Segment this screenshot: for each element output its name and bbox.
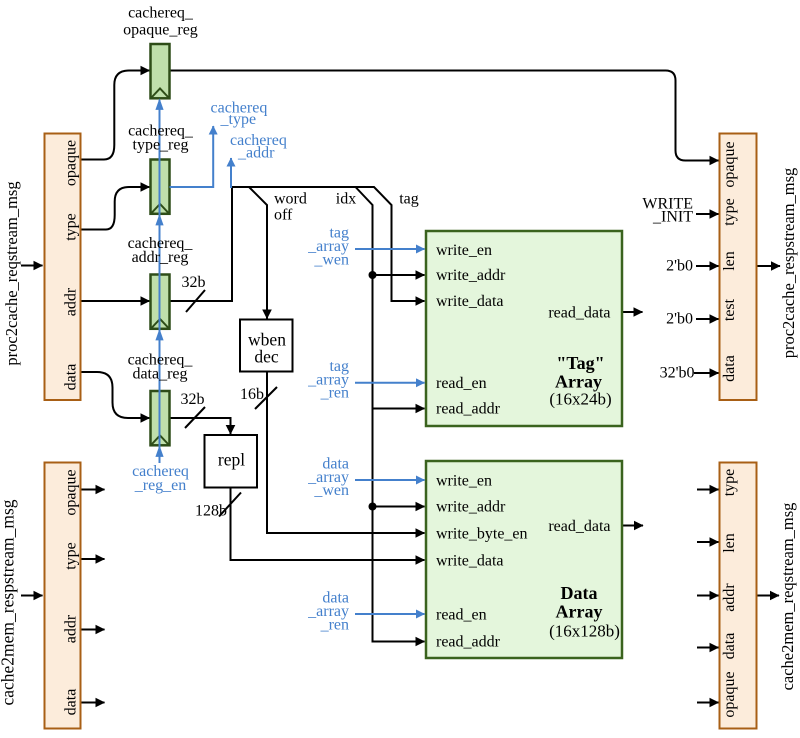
svg-text:_wen: _wen bbox=[313, 252, 349, 269]
svg-text:read_data: read_data bbox=[548, 305, 610, 322]
svg-text:proc2cache_respstream_msg: proc2cache_respstream_msg bbox=[779, 168, 798, 359]
svg-text:(16x24b): (16x24b) bbox=[549, 390, 611, 409]
svg-text:"Tag": "Tag" bbox=[556, 353, 604, 373]
svg-text:_ren: _ren bbox=[320, 617, 349, 634]
svg-text:opaque: opaque bbox=[721, 141, 738, 187]
svg-text:type: type bbox=[63, 213, 80, 241]
svg-text:_ren: _ren bbox=[320, 385, 349, 402]
svg-text:write_addr: write_addr bbox=[436, 499, 506, 516]
svg-text:len: len bbox=[721, 251, 738, 271]
svg-text:32'b0: 32'b0 bbox=[660, 365, 695, 382]
svg-text:16b: 16b bbox=[240, 386, 264, 403]
svg-text:_wen: _wen bbox=[313, 482, 349, 499]
svg-text:addr: addr bbox=[721, 583, 738, 612]
svg-text:addr: addr bbox=[63, 287, 80, 316]
svg-text:idx: idx bbox=[336, 191, 356, 208]
svg-text:data_reg: data_reg bbox=[132, 366, 187, 383]
svg-text:read_data: read_data bbox=[548, 518, 610, 535]
svg-text:_reg_en: _reg_en bbox=[134, 477, 187, 494]
svg-text:2'b0: 2'b0 bbox=[666, 258, 693, 275]
svg-text:write_byte_en: write_byte_en bbox=[436, 526, 528, 543]
svg-text:cache2mem_respstream_msg: cache2mem_respstream_msg bbox=[0, 499, 18, 705]
svg-text:write_data: write_data bbox=[436, 553, 504, 570]
svg-text:opaque: opaque bbox=[63, 140, 80, 186]
svg-text:32b: 32b bbox=[181, 391, 205, 408]
svg-text:read_en: read_en bbox=[436, 375, 487, 392]
svg-text:len: len bbox=[721, 533, 738, 553]
svg-text:write_addr: write_addr bbox=[436, 267, 506, 284]
svg-text:128b: 128b bbox=[195, 503, 227, 520]
svg-text:type_reg: type_reg bbox=[133, 137, 189, 154]
svg-text:cache2mem_reqstream_msg: cache2mem_reqstream_msg bbox=[778, 503, 797, 691]
svg-text:Array: Array bbox=[556, 602, 603, 622]
svg-text:dec: dec bbox=[254, 347, 279, 367]
svg-text:opaque: opaque bbox=[63, 469, 80, 515]
svg-text:addr_reg: addr_reg bbox=[132, 249, 189, 266]
svg-text:data: data bbox=[63, 689, 80, 716]
svg-text:addr: addr bbox=[63, 614, 80, 643]
svg-text:type: type bbox=[63, 542, 80, 570]
svg-text:Data: Data bbox=[561, 583, 598, 603]
svg-text:write_data: write_data bbox=[436, 293, 504, 310]
svg-text:write_en: write_en bbox=[436, 473, 492, 490]
svg-text:opaque_reg: opaque_reg bbox=[123, 22, 198, 39]
svg-text:read_addr: read_addr bbox=[436, 634, 501, 651]
svg-text:data: data bbox=[721, 355, 738, 382]
svg-text:2'b0: 2'b0 bbox=[666, 311, 693, 328]
svg-text:read_en: read_en bbox=[436, 607, 487, 624]
svg-text:write_en: write_en bbox=[436, 242, 492, 259]
svg-text:repl: repl bbox=[218, 450, 245, 470]
svg-text:off: off bbox=[274, 207, 293, 224]
svg-text:read_addr: read_addr bbox=[436, 401, 501, 418]
svg-text:cachereq_: cachereq_ bbox=[128, 5, 194, 22]
svg-text:type: type bbox=[721, 198, 738, 226]
svg-text:type: type bbox=[721, 469, 738, 497]
svg-text:Array: Array bbox=[555, 372, 602, 392]
svg-text:32b: 32b bbox=[182, 274, 206, 291]
svg-text:word: word bbox=[274, 191, 307, 208]
svg-text:_INIT: _INIT bbox=[652, 209, 693, 226]
svg-text:opaque: opaque bbox=[721, 671, 738, 717]
svg-text:(16x128b): (16x128b) bbox=[549, 622, 620, 641]
svg-text:_type: _type bbox=[220, 111, 257, 128]
svg-text:data: data bbox=[721, 633, 738, 660]
svg-text:proc2cache_reqstream_msg: proc2cache_reqstream_msg bbox=[2, 181, 21, 365]
svg-text:_addr: _addr bbox=[237, 145, 275, 162]
svg-text:tag: tag bbox=[399, 191, 419, 208]
svg-text:test: test bbox=[721, 298, 738, 321]
svg-text:data: data bbox=[63, 364, 80, 391]
